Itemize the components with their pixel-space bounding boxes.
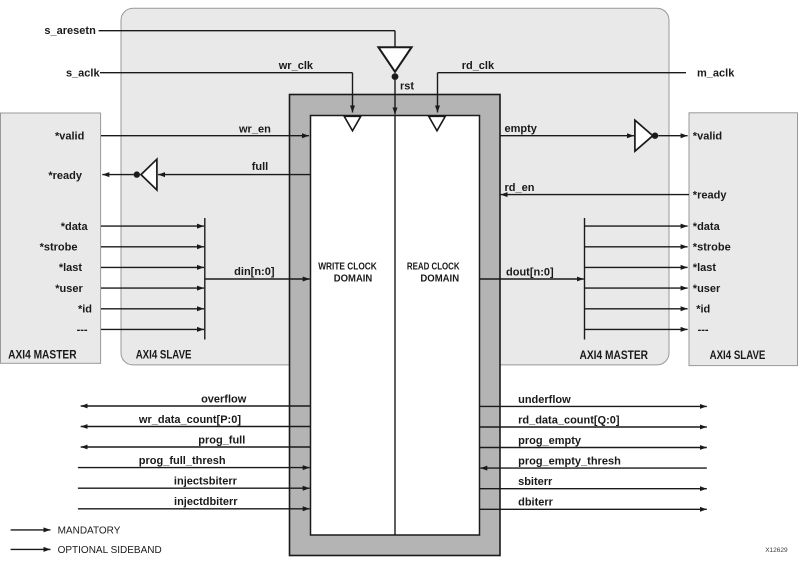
- svg-text:*data: *data: [693, 221, 721, 233]
- svg-text:underflow: underflow: [518, 394, 571, 406]
- svg-text:wr_en: wr_en: [238, 124, 271, 136]
- svg-text:dout[n:0]: dout[n:0]: [506, 267, 554, 279]
- svg-text:*id: *id: [696, 304, 710, 316]
- svg-text:*ready: *ready: [693, 189, 728, 201]
- svg-text:MANDATORY: MANDATORY: [58, 525, 121, 536]
- svg-text:wr_data_count[P:0]: wr_data_count[P:0]: [138, 414, 241, 426]
- svg-text:*ready: *ready: [48, 170, 83, 182]
- svg-text:prog_empty: prog_empty: [518, 435, 582, 447]
- svg-text:AXI4 SLAVE: AXI4 SLAVE: [136, 350, 192, 362]
- svg-text:din[n:0]: din[n:0]: [234, 266, 275, 278]
- svg-text:wr_clk: wr_clk: [278, 60, 314, 72]
- svg-text:*last: *last: [693, 262, 717, 274]
- svg-text:rd_clk: rd_clk: [462, 60, 495, 72]
- svg-text:dbiterr: dbiterr: [518, 497, 554, 509]
- svg-text:*strobe: *strobe: [40, 242, 78, 254]
- svg-text:s_aresetn: s_aresetn: [44, 25, 96, 37]
- svg-text:injectsbiterr: injectsbiterr: [174, 476, 238, 488]
- svg-text:READ CLOCK: READ CLOCK: [407, 261, 460, 272]
- svg-text:*last: *last: [59, 262, 83, 274]
- svg-text:AXI4 MASTER: AXI4 MASTER: [580, 350, 649, 362]
- svg-text:prog_empty_thresh: prog_empty_thresh: [518, 456, 621, 468]
- svg-text:prog_full: prog_full: [198, 435, 245, 447]
- svg-text:m_aclk: m_aclk: [697, 68, 735, 80]
- svg-text:AXI4 SLAVE: AXI4 SLAVE: [710, 350, 766, 362]
- svg-text:*user: *user: [693, 283, 721, 295]
- svg-text:*id: *id: [78, 304, 92, 316]
- svg-text:OPTIONAL SIDEBAND: OPTIONAL SIDEBAND: [58, 545, 162, 556]
- svg-text:---: ---: [698, 324, 709, 336]
- svg-text:full: full: [252, 161, 269, 173]
- svg-text:X12629: X12629: [765, 547, 788, 554]
- svg-text:WRITE CLOCK: WRITE CLOCK: [318, 261, 377, 272]
- svg-text:*user: *user: [55, 283, 83, 295]
- svg-text:*data: *data: [61, 221, 89, 233]
- svg-text:*strobe: *strobe: [693, 242, 731, 254]
- svg-text:DOMAIN: DOMAIN: [420, 274, 459, 285]
- svg-text:*valid: *valid: [693, 130, 722, 142]
- svg-text:rst: rst: [400, 81, 414, 93]
- svg-text:AXI4 MASTER: AXI4 MASTER: [8, 350, 77, 362]
- svg-text:rd_en: rd_en: [505, 182, 535, 194]
- svg-text:injectdbiterr: injectdbiterr: [174, 496, 238, 508]
- svg-text:s_aclk: s_aclk: [66, 68, 101, 80]
- svg-text:rd_data_count[Q:0]: rd_data_count[Q:0]: [518, 414, 620, 426]
- svg-text:overflow: overflow: [201, 393, 247, 405]
- svg-text:*valid: *valid: [55, 130, 84, 142]
- svg-text:empty: empty: [505, 123, 538, 135]
- svg-text:DOMAIN: DOMAIN: [334, 274, 373, 285]
- svg-text:---: ---: [77, 324, 88, 336]
- svg-text:sbiterr: sbiterr: [518, 476, 553, 488]
- svg-text:prog_full_thresh: prog_full_thresh: [139, 455, 226, 467]
